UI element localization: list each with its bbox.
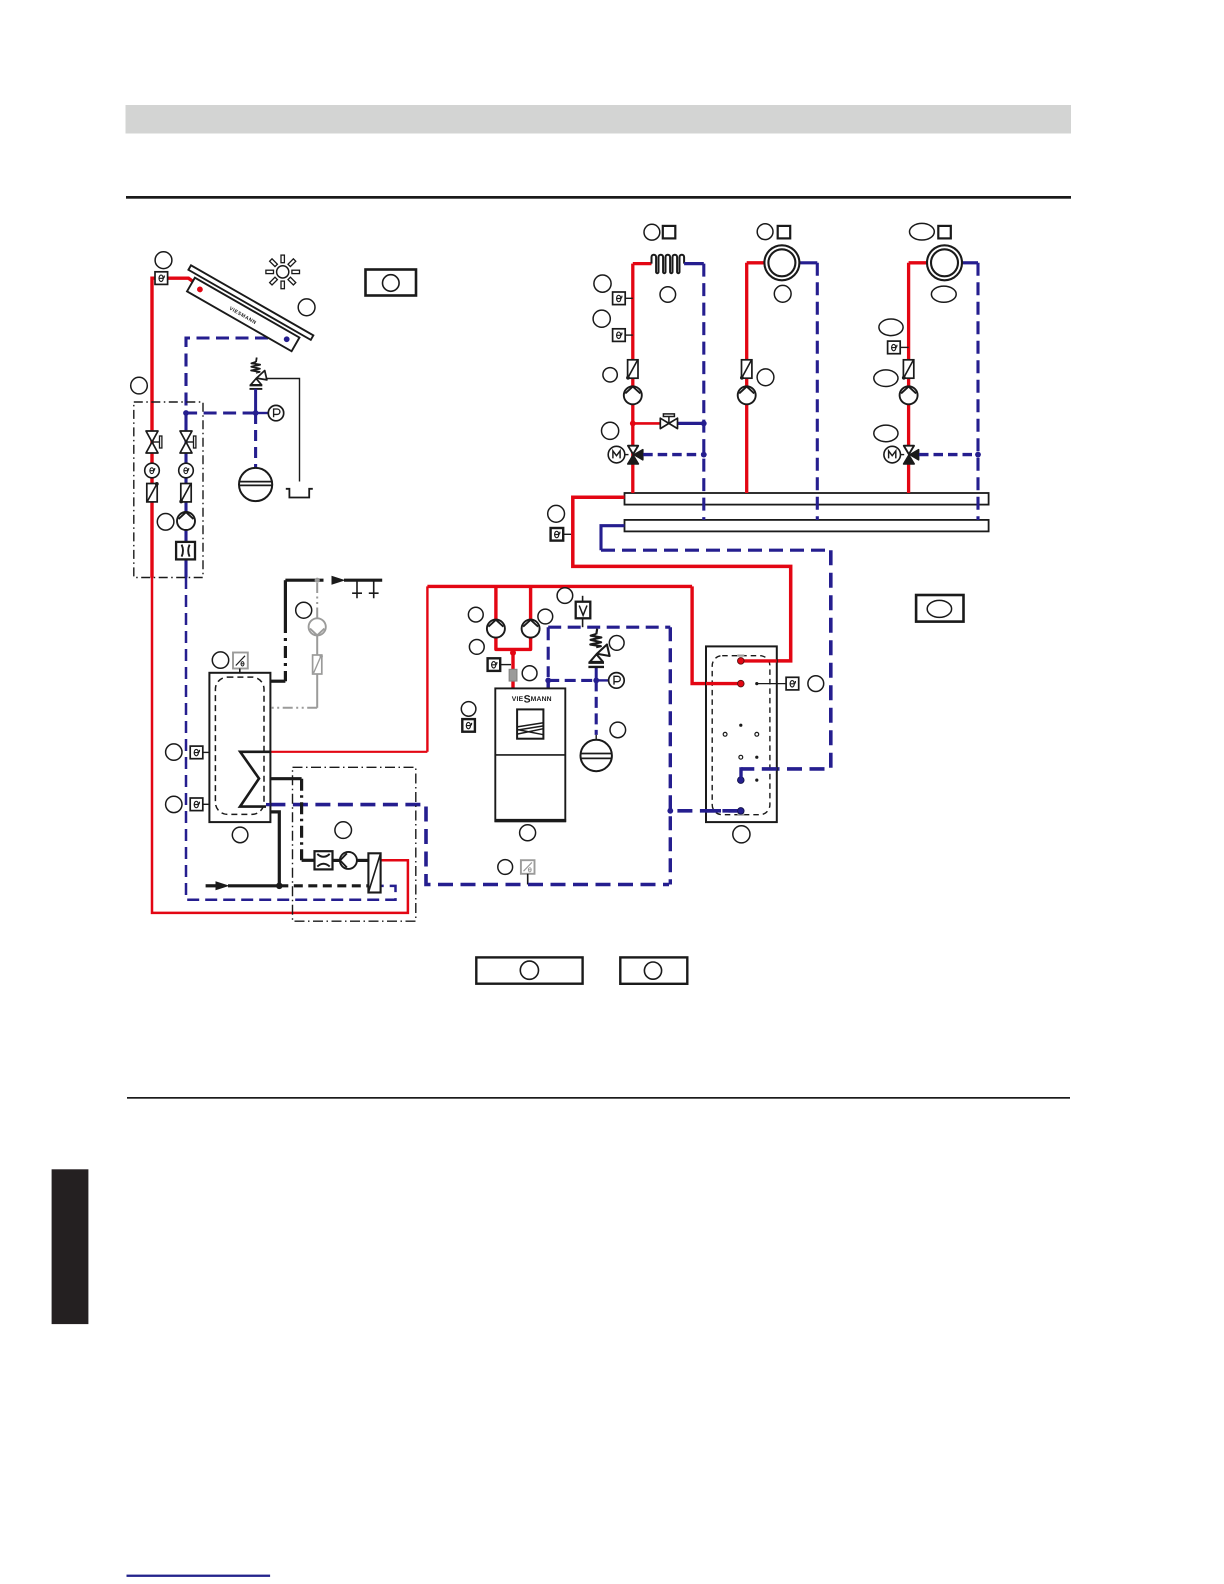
svg-text:VIE: VIE [512, 696, 524, 703]
svg-text:MANN: MANN [531, 696, 552, 703]
svg-text:S: S [524, 694, 531, 706]
